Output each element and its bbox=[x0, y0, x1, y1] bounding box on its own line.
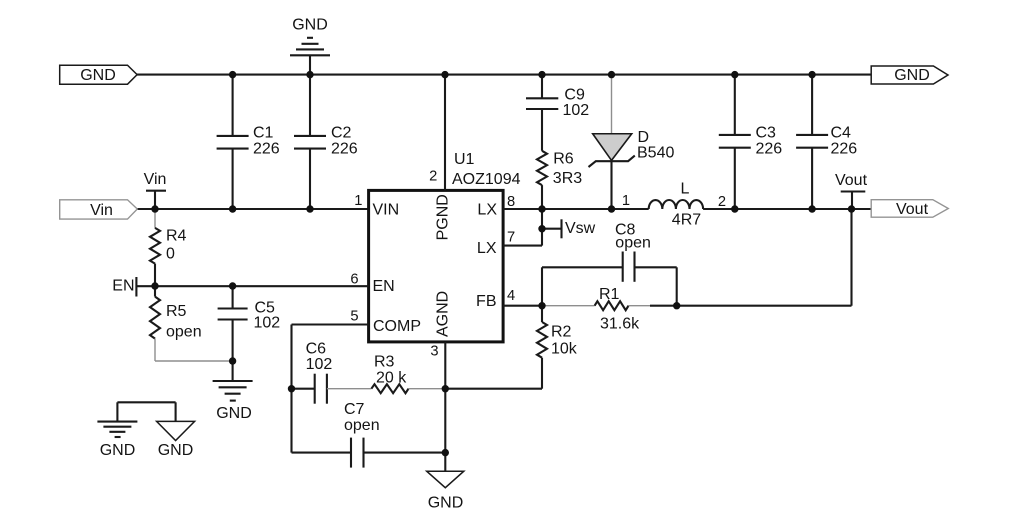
wire pin3 AGND down bbox=[444, 342, 446, 453]
svg-text:COMP: COMP bbox=[373, 318, 421, 335]
svg-text:AOZ1094: AOZ1094 bbox=[452, 171, 521, 188]
node dot GND rail C3 bbox=[731, 71, 738, 78]
svg-text:R1: R1 bbox=[599, 286, 620, 303]
svg-text:LX: LX bbox=[477, 240, 497, 257]
capacitor C4 bbox=[796, 75, 857, 209]
svg-text:226: 226 bbox=[253, 141, 280, 158]
node dot COMP C6 bbox=[288, 385, 295, 392]
svg-text:102: 102 bbox=[563, 102, 590, 119]
svg-text:10k: 10k bbox=[551, 341, 578, 358]
svg-text:L: L bbox=[681, 181, 690, 198]
svg-text:6: 6 bbox=[350, 272, 358, 288]
svg-text:1: 1 bbox=[354, 193, 362, 209]
node Vin probe tick bbox=[144, 171, 167, 209]
node dot FB right bbox=[673, 302, 680, 309]
svg-text:C4: C4 bbox=[831, 125, 852, 142]
wire pin2 PGND to GND rail bbox=[444, 75, 446, 191]
capacitor C5 bbox=[218, 286, 281, 381]
wire LX rail right of inductor bbox=[703, 208, 871, 210]
svg-text:3R3: 3R3 bbox=[553, 170, 582, 187]
node dot Vout rail C4 bbox=[808, 205, 815, 212]
node dot AGND C7 bbox=[442, 449, 449, 456]
svg-text:open: open bbox=[166, 324, 202, 341]
svg-text:C1: C1 bbox=[253, 125, 274, 142]
svg-text:Vsw: Vsw bbox=[565, 220, 596, 237]
capacitor C7 bbox=[292, 401, 446, 468]
svg-text:GND: GND bbox=[158, 442, 194, 459]
ground legend earth + arrow bottom left bbox=[97, 402, 194, 459]
svg-text:LX: LX bbox=[477, 202, 497, 219]
node dot GND rail C1 bbox=[229, 71, 236, 78]
svg-text:7: 7 bbox=[507, 229, 515, 245]
svg-text:C6: C6 bbox=[306, 341, 327, 358]
node EN tick bbox=[112, 277, 136, 297]
wire EN to pin 6 bbox=[136, 285, 368, 287]
capacitor C1 bbox=[217, 75, 280, 209]
node dot LX rail pin8 bbox=[538, 205, 545, 212]
resistor R6 bbox=[537, 151, 582, 210]
svg-text:102: 102 bbox=[254, 315, 281, 332]
net flag Vout right bbox=[871, 200, 948, 218]
svg-text:GND: GND bbox=[894, 67, 930, 84]
svg-text:4R7: 4R7 bbox=[672, 212, 701, 229]
resistor R5 bbox=[150, 286, 233, 361]
node dot EN C5 bbox=[229, 282, 236, 289]
svg-text:GND: GND bbox=[100, 442, 136, 459]
svg-text:R2: R2 bbox=[551, 324, 572, 341]
svg-text:VIN: VIN bbox=[373, 202, 400, 219]
op-amp U1 AOZ1094 body bbox=[369, 151, 521, 342]
node dot Vout rail C3 bbox=[731, 205, 738, 212]
svg-text:EN: EN bbox=[373, 278, 395, 295]
wire LX rail left of inductor bbox=[503, 208, 649, 210]
ground arrow below AGND bbox=[427, 453, 464, 512]
net flag GND left bbox=[60, 65, 137, 84]
svg-text:Vin: Vin bbox=[144, 171, 167, 188]
svg-text:Vin: Vin bbox=[90, 202, 113, 219]
svg-text:FB: FB bbox=[476, 293, 496, 310]
node dot Vin rail R4 bbox=[151, 205, 158, 212]
wire FB net to Vout bbox=[677, 209, 852, 306]
node dot AGND R3 bbox=[442, 385, 449, 392]
resistor R2 bbox=[445, 306, 577, 389]
node dot Vout rail feedback bbox=[848, 205, 855, 212]
svg-text:0: 0 bbox=[166, 246, 175, 263]
node dot GND rail diode bbox=[608, 71, 615, 78]
node Vsw tick bbox=[542, 219, 596, 238]
ground earth symbol top (above C2) bbox=[290, 17, 330, 75]
svg-text:C7: C7 bbox=[344, 401, 365, 418]
svg-text:4: 4 bbox=[507, 288, 515, 304]
node dot C5 bottom bbox=[229, 357, 236, 364]
svg-text:D: D bbox=[638, 129, 650, 146]
node dot Vin rail C1 bbox=[229, 205, 236, 212]
svg-text:3: 3 bbox=[430, 343, 438, 359]
wire GND top rail bbox=[137, 74, 871, 76]
diode D B540 bbox=[589, 75, 675, 209]
node dot GND rail pin2 bbox=[441, 71, 448, 78]
svg-text:GND: GND bbox=[292, 17, 328, 34]
node dot Vsw bbox=[538, 225, 545, 232]
inductor L bbox=[622, 181, 726, 229]
svg-text:Vout: Vout bbox=[896, 201, 929, 218]
svg-text:2: 2 bbox=[718, 194, 726, 210]
svg-text:31.6k: 31.6k bbox=[600, 316, 640, 333]
svg-text:R5: R5 bbox=[166, 303, 187, 320]
svg-text:C2: C2 bbox=[331, 125, 352, 142]
svg-text:EN: EN bbox=[112, 278, 134, 295]
capacitor C8 bbox=[542, 221, 677, 305]
net flag GND right bbox=[871, 66, 948, 84]
wire Vsw branch pin7 bbox=[503, 209, 542, 246]
node Vout probe tick bbox=[835, 172, 868, 209]
svg-text:open: open bbox=[344, 417, 380, 434]
svg-text:1: 1 bbox=[622, 193, 630, 209]
node dot GND rail C9 bbox=[538, 71, 545, 78]
svg-text:20 k: 20 k bbox=[376, 370, 407, 387]
svg-text:C9: C9 bbox=[564, 86, 585, 103]
resistor R3 bbox=[327, 354, 445, 394]
resistor R4 bbox=[150, 209, 187, 286]
node dot FB left bbox=[538, 302, 545, 309]
svg-text:2: 2 bbox=[429, 168, 437, 184]
node dot GND rail C4 bbox=[808, 71, 815, 78]
node dot GND rail C2 bbox=[306, 71, 313, 78]
svg-text:R4: R4 bbox=[166, 228, 187, 245]
svg-text:226: 226 bbox=[756, 141, 783, 158]
svg-text:GND: GND bbox=[216, 405, 252, 422]
svg-text:C3: C3 bbox=[756, 125, 777, 142]
svg-text:226: 226 bbox=[831, 141, 858, 158]
svg-text:GND: GND bbox=[428, 495, 464, 512]
node dot Vin rail C2 bbox=[306, 205, 313, 212]
resistor R1 bbox=[542, 286, 677, 333]
capacitor C2 bbox=[294, 75, 358, 209]
svg-text:8: 8 bbox=[507, 194, 515, 210]
wire Vin rail bbox=[137, 208, 369, 210]
wire FB pin 4 bbox=[503, 305, 542, 307]
node dot LX rail diode bbox=[608, 205, 615, 212]
svg-text:102: 102 bbox=[306, 356, 333, 373]
svg-text:AGND: AGND bbox=[435, 291, 452, 337]
svg-text:GND: GND bbox=[80, 67, 116, 84]
node dot EN R4 bbox=[151, 282, 158, 289]
net flag Vin left bbox=[60, 200, 138, 219]
svg-text:R6: R6 bbox=[553, 151, 574, 168]
svg-text:5: 5 bbox=[350, 309, 358, 325]
svg-text:U1: U1 bbox=[454, 151, 475, 168]
capacitor C6 bbox=[292, 341, 333, 404]
wire COMP left vertical bbox=[290, 325, 292, 453]
capacitor C3 bbox=[719, 75, 782, 209]
svg-text:B540: B540 bbox=[637, 145, 674, 162]
svg-text:open: open bbox=[615, 234, 651, 251]
svg-text:PGND: PGND bbox=[435, 194, 452, 240]
wire COMP pin 5 bbox=[292, 323, 369, 325]
svg-text:226: 226 bbox=[331, 141, 358, 158]
ground earth below C5 bbox=[213, 381, 253, 422]
capacitor C9 bbox=[526, 75, 589, 151]
svg-text:R3: R3 bbox=[374, 354, 395, 371]
svg-text:Vout: Vout bbox=[835, 172, 868, 189]
